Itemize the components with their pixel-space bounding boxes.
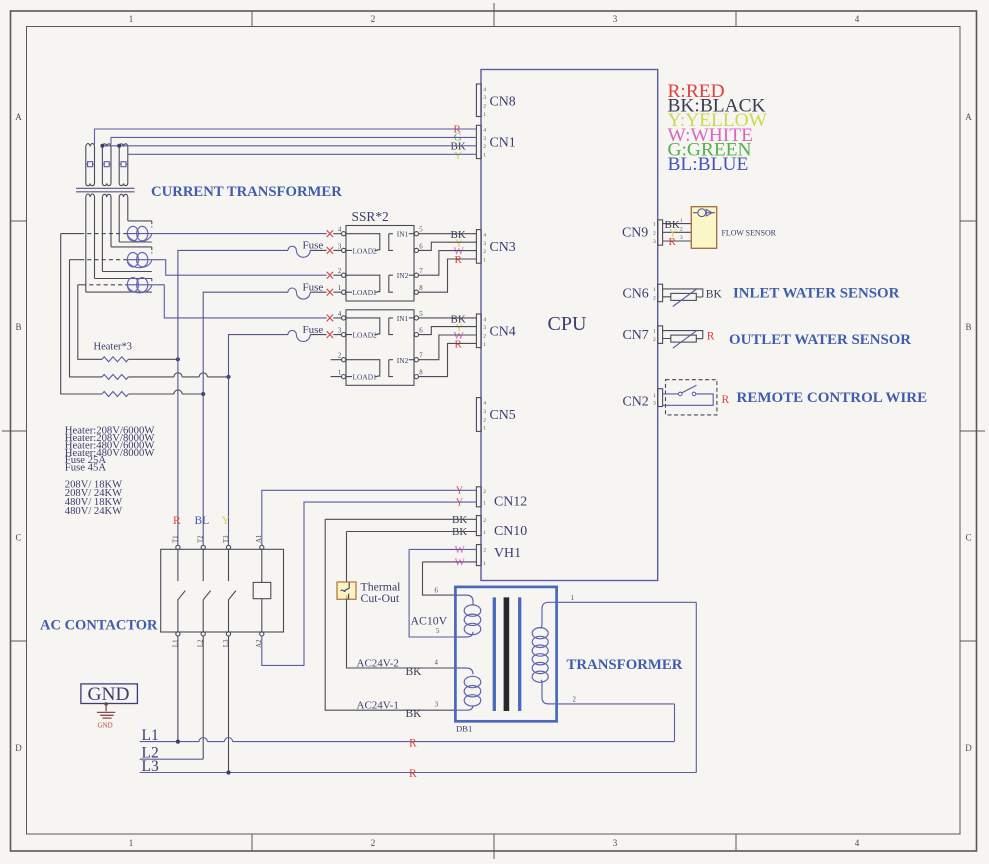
wire SSR2 pin6 to CN4 pin3 (418, 327, 476, 335)
secondary link wires to CT coils (86, 221, 152, 292)
svg-text:2: 2 (483, 518, 486, 524)
wire SSR2 pin5 to CN4 pin4 (418, 317, 476, 319)
svg-text:3: 3 (338, 243, 342, 250)
wire SSR2 pin8 to CN4 pin1 (418, 343, 476, 376)
svg-text:6: 6 (435, 588, 439, 595)
svg-text:3: 3 (483, 241, 486, 247)
svg-text:Fuse: Fuse (303, 281, 324, 293)
svg-text:CN4: CN4 (490, 324, 516, 339)
heater resistor 1 (102, 357, 128, 362)
svg-text:IN1: IN1 (397, 230, 409, 239)
contactor coil (261, 549, 263, 632)
svg-text:8: 8 (419, 285, 423, 292)
svg-text:B: B (965, 322, 971, 332)
left loop wire phase 3 (78, 285, 102, 360)
svg-text:4: 4 (483, 127, 486, 133)
svg-text:Fuse: Fuse (303, 240, 324, 252)
svg-text:REMOTE CONTROL WIRE: REMOTE CONTROL WIRE (737, 390, 928, 406)
power spec text block (65, 479, 122, 516)
svg-text:3: 3 (680, 235, 683, 241)
svg-text:1: 1 (483, 530, 486, 536)
svg-text:2: 2 (483, 334, 486, 340)
svg-text:1: 1 (483, 501, 486, 507)
connector CN8 (476, 84, 515, 118)
svg-text:2: 2 (483, 489, 486, 495)
svg-text:5: 5 (419, 227, 423, 234)
svg-text:BK: BK (452, 514, 467, 526)
svg-text:1: 1 (483, 258, 486, 264)
stub wires X to SSR pins (333, 234, 341, 335)
GND box label (81, 684, 137, 705)
wire R phase1 to CN1 pin4 (95, 129, 477, 145)
transformer primary coil lower (AC24V) (456, 668, 480, 710)
svg-text:2: 2 (371, 838, 376, 848)
svg-text:Y: Y (454, 150, 462, 162)
wire A2 loop to CN12 pin1 (262, 502, 477, 665)
svg-text:2: 2 (483, 417, 486, 423)
junction dots on BK bus (100, 144, 104, 148)
svg-text:2: 2 (483, 144, 486, 150)
heater resistor 3 (102, 392, 128, 397)
CT secondary channel 2 (102, 194, 111, 271)
svg-text:4: 4 (483, 401, 486, 407)
CT core bars (76, 188, 135, 192)
svg-text:AC10V: AC10V (411, 614, 448, 628)
svg-text:AC24V-1: AC24V-1 (357, 699, 399, 711)
svg-text:1: 1 (129, 14, 134, 24)
svg-text:R: R (669, 236, 677, 248)
svg-text:TRANSFORMER: TRANSFORMER (567, 657, 683, 673)
svg-text:T2: T2 (198, 535, 205, 543)
svg-text:2: 2 (483, 104, 486, 110)
current transformer coil CT1 (127, 226, 152, 241)
connector CN2 (623, 389, 663, 410)
svg-text:T3: T3 (223, 535, 230, 543)
svg-text:D: D (965, 743, 972, 753)
svg-text:1: 1 (653, 287, 656, 293)
left loop wire phase 2 (70, 260, 103, 377)
contactor pole 2 (203, 549, 210, 632)
current transformer coil CT2 (127, 253, 152, 268)
svg-text:LOAD2: LOAD2 (353, 331, 378, 340)
dashed coil taps (151, 221, 153, 281)
connector CN1 (476, 125, 515, 158)
svg-text:LOAD1: LOAD1 (353, 288, 378, 297)
svg-text:2: 2 (653, 230, 656, 236)
svg-text:4: 4 (855, 14, 860, 24)
terminal box on channel 1 (86, 162, 95, 167)
svg-text:3: 3 (483, 325, 486, 331)
wire thermal cutout to transformer pin4 (347, 599, 456, 668)
svg-text:W: W (455, 557, 466, 569)
connector CN7 (623, 326, 663, 344)
current transformer coil CT3 (127, 278, 152, 293)
svg-text:3: 3 (483, 95, 486, 101)
svg-text:1: 1 (653, 329, 656, 335)
terminal box on channel 2 (102, 162, 111, 167)
transformer pin labels (435, 588, 441, 709)
contactor pole 3 (229, 549, 236, 632)
svg-text:CN3: CN3 (490, 240, 516, 255)
transformer DB1 body (455, 587, 556, 721)
svg-text:3: 3 (338, 328, 342, 335)
svg-text:6: 6 (419, 243, 423, 250)
wire G phase2 to CN1 pin3 (111, 137, 476, 144)
connector CN6 (623, 284, 663, 302)
fuse F2 (288, 281, 327, 299)
svg-text:IN1: IN1 (397, 314, 409, 323)
CT secondary channel 3 (119, 194, 128, 242)
CPU U1 (481, 70, 658, 581)
phase wire through CT1 to SSR1 pin4 (61, 233, 327, 235)
contactor pole 1 (178, 549, 185, 632)
ground symbol (97, 702, 115, 729)
inlet water sensor (thermistor) (663, 285, 900, 306)
red X terminal marks (327, 230, 333, 338)
svg-text:GND: GND (98, 722, 113, 730)
flow sensor pin numbers (680, 218, 683, 241)
svg-text:IN2: IN2 (397, 356, 409, 365)
svg-text:CN6: CN6 (623, 286, 649, 301)
svg-text:R: R (455, 339, 463, 351)
wire VH1 pin1 to transformer pin6 (423, 562, 477, 595)
wire CN10 pin1 to thermal cutout (347, 532, 477, 583)
svg-text:4: 4 (483, 317, 486, 323)
svg-text:R: R (409, 737, 417, 749)
svg-text:1: 1 (571, 595, 574, 602)
L1 line to transformer pin2 (140, 704, 675, 742)
wire labels at CN4 (451, 313, 466, 350)
svg-text:2: 2 (338, 268, 342, 275)
svg-text:6: 6 (419, 328, 423, 335)
transformer pin1 stub (558, 601, 696, 603)
transformer secondary coil (532, 602, 556, 704)
wire labels at CN12 (456, 485, 464, 509)
svg-text:2: 2 (653, 337, 656, 343)
wire SSR1 pin5 to CN3 pin4 (418, 233, 476, 235)
svg-text:Fuse 45A: Fuse 45A (65, 462, 107, 474)
svg-text:AC24V-2: AC24V-2 (357, 658, 399, 670)
svg-text:3: 3 (483, 136, 486, 142)
svg-text:1: 1 (483, 561, 486, 567)
connector CN9 (622, 220, 663, 245)
svg-text:CN12: CN12 (494, 495, 527, 510)
flow sensor (691, 207, 776, 249)
svg-text:VH1: VH1 (494, 546, 521, 561)
svg-text:3: 3 (613, 14, 618, 24)
svg-text:A: A (15, 112, 22, 122)
svg-text:4: 4 (338, 227, 342, 234)
svg-text:4: 4 (338, 311, 342, 318)
svg-text:Heater*3: Heater*3 (94, 342, 132, 353)
svg-text:CN2: CN2 (623, 395, 649, 410)
svg-text:B: B (15, 322, 21, 332)
phase column T2 (203, 292, 288, 545)
left loop wire phase 1 (61, 234, 102, 394)
outlet water sensor (thermistor) (663, 330, 912, 348)
svg-text:CN10: CN10 (494, 524, 527, 539)
wire CN10 pin2 to transformer pin3 (325, 519, 476, 710)
L3 line to transformer pin1 (140, 602, 697, 772)
svg-text:D: D (15, 743, 22, 753)
solid state relay SSR1 (338, 226, 423, 302)
wires CN9 to flow sensor (663, 224, 692, 241)
connector CN5 (476, 398, 515, 432)
svg-text:BL:BLUE: BL:BLUE (668, 154, 749, 175)
svg-text:2: 2 (338, 353, 342, 360)
svg-text:2: 2 (483, 249, 486, 255)
svg-text:480V/ 24KW: 480V/ 24KW (65, 506, 122, 517)
svg-text:Cut-Out: Cut-Out (361, 591, 400, 605)
wire labels at CN10 (452, 514, 467, 538)
svg-text:3: 3 (653, 239, 656, 245)
svg-text:CN8: CN8 (490, 95, 516, 110)
connector CN12 (476, 487, 527, 510)
svg-text:INLET WATER SENSOR: INLET WATER SENSOR (733, 285, 900, 301)
svg-text:7: 7 (419, 268, 423, 275)
svg-text:BK: BK (406, 666, 423, 678)
wire labels at VH1 (455, 544, 466, 569)
connector CN3 (476, 230, 515, 264)
wire SSR1 pin8 to CN3 pin1 (418, 259, 476, 292)
svg-text:W: W (455, 544, 466, 556)
wire Y phase3 to CN1 pin1 (128, 153, 477, 155)
svg-text:1: 1 (483, 112, 486, 118)
svg-text:R: R (409, 768, 417, 780)
svg-text:5: 5 (436, 628, 440, 635)
svg-text:1: 1 (483, 426, 486, 432)
svg-text:1: 1 (680, 218, 683, 224)
svg-text:1: 1 (653, 222, 656, 228)
fuse F1 (288, 240, 327, 258)
heater spec text block (65, 425, 156, 474)
wire A1 to CN12 pin2 (262, 490, 477, 545)
heater wire row3 to T2 with hop (128, 393, 203, 395)
svg-text:R: R (722, 394, 730, 406)
heater wire row2 to T3 with hops (128, 376, 228, 378)
svg-text:LOAD2: LOAD2 (353, 246, 378, 255)
heater resistor 2 (102, 374, 128, 379)
svg-text:7: 7 (419, 353, 423, 360)
transformer core bars (493, 597, 496, 711)
terminal box on channel 3 (119, 162, 128, 167)
phase column T3 (229, 335, 289, 546)
svg-text:GND: GND (88, 684, 130, 705)
wire BK bus to CN1 pin2 (102, 145, 476, 147)
transformer primary coil upper (AC10V) (456, 595, 480, 637)
svg-text:BK: BK (452, 526, 467, 538)
connector VH1 (476, 545, 521, 567)
phase wire through CT2 to SSR1 pin2 (70, 260, 327, 276)
wire SSR1 pin6 to CN3 pin3 (418, 242, 476, 250)
wire T1 down to L1 (177, 636, 179, 742)
CT secondary channel 1 (86, 194, 95, 292)
svg-text:8: 8 (419, 370, 423, 377)
svg-text:OUTLET WATER SENSOR: OUTLET WATER SENSOR (729, 332, 911, 348)
phase column T1 (178, 250, 288, 545)
svg-text:5: 5 (419, 311, 423, 318)
svg-text:CN7: CN7 (623, 328, 649, 343)
svg-text:2: 2 (573, 697, 577, 704)
svg-text:2: 2 (680, 227, 683, 233)
svg-text:Y: Y (222, 515, 231, 527)
svg-text:3: 3 (483, 409, 486, 415)
svg-text:4: 4 (855, 838, 860, 848)
svg-text:1: 1 (129, 838, 134, 848)
svg-text:3: 3 (435, 701, 439, 708)
svg-text:4: 4 (483, 87, 486, 93)
svg-text:1: 1 (483, 153, 486, 159)
phase wire through CT3 to SSR2 pin4 (78, 285, 327, 318)
svg-text:CPU: CPU (548, 313, 587, 335)
connector CN10 (476, 516, 527, 539)
svg-text:T1: T1 (172, 535, 179, 543)
svg-text:BK: BK (406, 708, 423, 720)
remote control wire switch (663, 380, 927, 415)
contactor K1 body (161, 535, 284, 648)
CT primary winding channel 2 (102, 144, 111, 186)
svg-text:R: R (455, 254, 463, 266)
svg-text:AC CONTACTOR: AC CONTACTOR (40, 618, 158, 634)
wire T3 down to L3 (228, 636, 230, 773)
svg-text:3: 3 (613, 838, 618, 848)
svg-text:3: 3 (653, 400, 656, 406)
svg-text:SSR*2: SSR*2 (352, 209, 389, 224)
svg-text:C: C (965, 533, 971, 543)
svg-text:A: A (965, 112, 972, 122)
svg-text:Fuse: Fuse (303, 324, 324, 336)
svg-text:1: 1 (338, 370, 341, 377)
svg-text:BK: BK (706, 289, 723, 301)
svg-text:C: C (15, 533, 21, 543)
svg-text:R: R (173, 515, 181, 527)
CT primary winding channel 3 (119, 144, 128, 186)
svg-text:LOAD1: LOAD1 (353, 373, 378, 382)
svg-text:IN2: IN2 (397, 271, 409, 280)
solid state relay SSR2 (338, 310, 423, 386)
svg-text:4: 4 (435, 659, 439, 666)
wire labels at CN1 (451, 123, 466, 162)
wire VH1 pin2 to transformer pin5 (409, 549, 476, 637)
wire T2 down to L2 (202, 636, 204, 759)
CT primary winding channel 1 (86, 144, 95, 186)
svg-text:4: 4 (483, 232, 486, 238)
svg-text:2: 2 (483, 548, 486, 554)
L2 line (140, 758, 204, 760)
fuse F3 (288, 324, 327, 342)
svg-text:CN5: CN5 (490, 408, 516, 423)
svg-text:FLOW SENSOR: FLOW SENSOR (722, 228, 777, 237)
transformer pin2 stub (558, 703, 675, 705)
wire SSR2 pin7 to CN4 pin2 (418, 335, 476, 360)
thermal cut-out TH1 (337, 579, 401, 605)
svg-text:CURRENT TRANSFORMER: CURRENT TRANSFORMER (151, 184, 342, 200)
svg-text:2: 2 (653, 295, 656, 301)
svg-text:DB1: DB1 (456, 724, 472, 734)
svg-text:R: R (707, 330, 715, 342)
wire color legend (668, 81, 768, 175)
wire SSR1 pin7 to CN3 pin2 (418, 251, 476, 276)
svg-text:BL: BL (195, 515, 210, 527)
svg-text:CN9: CN9 (622, 226, 648, 241)
svg-text:1: 1 (653, 393, 656, 399)
svg-text:1: 1 (483, 342, 486, 348)
svg-text:CN1: CN1 (490, 136, 516, 151)
svg-text:2: 2 (371, 14, 376, 24)
svg-text:1: 1 (338, 285, 341, 292)
SSR2 unused pin stubs (331, 360, 342, 377)
wire labels at CN3 (451, 229, 466, 266)
heater wire row1 to T1 (128, 358, 178, 360)
connector CN4 (476, 314, 515, 348)
